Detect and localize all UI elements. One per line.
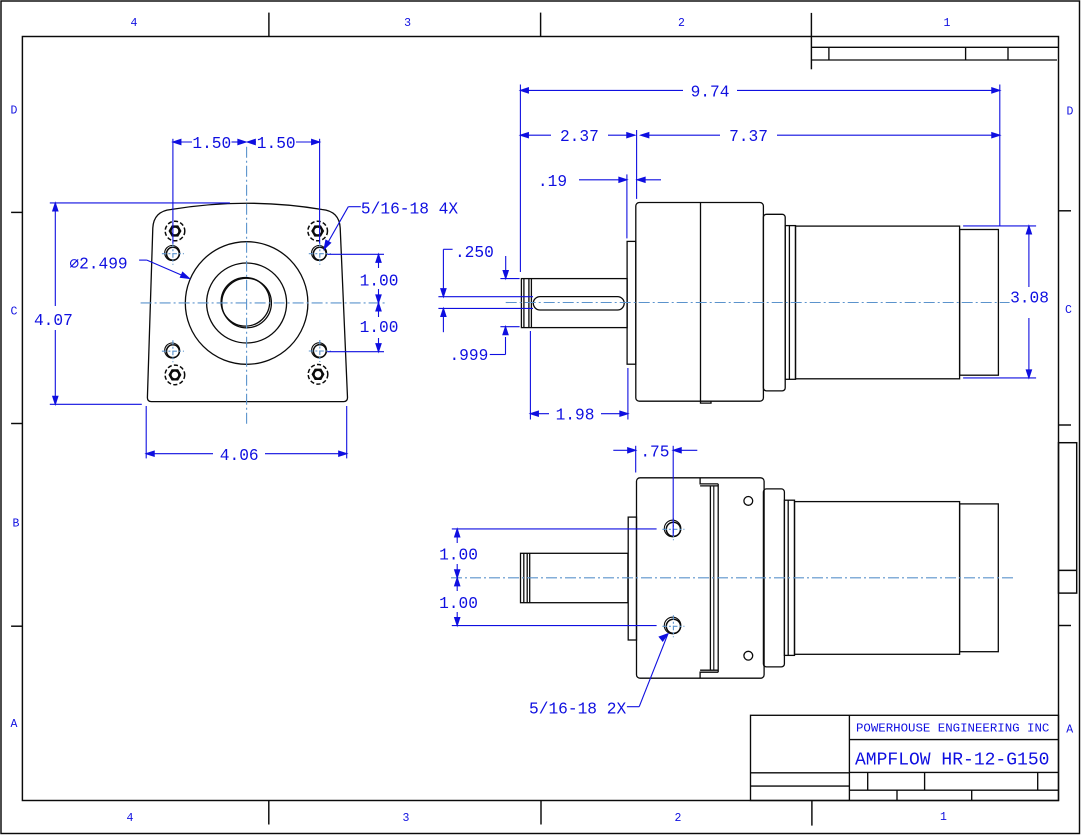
front view: vertical centerline	[246, 147, 248, 424]
svg-text:C: C	[11, 306, 18, 319]
extension lines top view	[519, 85, 521, 273]
dim 1.50 extension lines	[172, 139, 174, 244]
left zone tick B/A	[11, 625, 22, 627]
right zone tick C/B	[1059, 424, 1072, 426]
svg-text:.75: .75	[640, 443, 669, 461]
TITLE BLOCK	[751, 715, 1059, 800]
REVISION TABLE top right	[811, 47, 1058, 60]
front view centerlines	[141, 147, 387, 424]
front view: hub circle	[207, 263, 287, 343]
side view: shaft snap ring lines	[523, 279, 525, 328]
svg-text:1.00: 1.00	[360, 319, 399, 337]
dim 2.37	[520, 134, 551, 136]
left zone tick D/C	[11, 211, 22, 213]
leader dia 2.499	[139, 259, 147, 261]
svg-text:1.00: 1.00	[360, 272, 399, 290]
svg-text:AMPFLOW HR-12-G150: AMPFLOW HR-12-G150	[855, 751, 1049, 771]
svg-text:1: 1	[944, 17, 951, 30]
side view: gearbox body	[636, 203, 764, 402]
bottom view: crosshair lower hole	[662, 625, 684, 627]
dim 7.37	[641, 134, 720, 136]
svg-text:2: 2	[678, 17, 685, 30]
side view: keyway slot	[533, 297, 624, 310]
front view: cap screw top-left	[165, 221, 185, 241]
svg-text:2.37: 2.37	[560, 128, 599, 146]
front view: tapped hole top-left 5/16-18	[165, 246, 180, 261]
dim .19 arrows outside	[579, 179, 619, 181]
bottom view: gearbox body	[637, 478, 765, 678]
front view: bore circle inner thread arc	[221, 278, 270, 327]
bottom view: motor end cap	[960, 504, 999, 652]
bottom view: face plate step bottom	[700, 670, 718, 678]
dim 1.98	[530, 413, 549, 415]
side view: gearbox bottom step	[701, 401, 712, 403]
svg-text:D: D	[11, 105, 18, 118]
bottom view: small hole upper	[744, 497, 753, 506]
svg-text:.999: .999	[449, 347, 488, 365]
dim .75	[613, 449, 627, 451]
front view: crosshair bottom-left hole	[162, 350, 184, 352]
bottom zone tick 2/1	[811, 801, 813, 826]
side view: adapter ring 2	[785, 226, 795, 380]
bottom view: small hole lower	[744, 651, 753, 660]
bottom view: adapter ring 1	[763, 489, 784, 667]
right zone tick D/C	[1059, 210, 1072, 212]
front view: cap screw top-right	[308, 221, 328, 241]
dim 4.07 vertical	[54, 203, 56, 306]
bottom view: crosshair upper hole	[662, 528, 684, 530]
svg-text:.19: .19	[538, 173, 567, 191]
svg-text:4: 4	[131, 17, 138, 30]
front view: tapped hole bottom-right 5/16-18	[312, 343, 327, 358]
front view: horizontal centerline	[141, 302, 387, 304]
svg-text:1.50: 1.50	[257, 135, 296, 153]
svg-text:∅2.499: ∅2.499	[69, 255, 127, 273]
top zone tick 3/2	[540, 13, 542, 37]
svg-text:2: 2	[675, 812, 682, 825]
front view: crosshair top-left hole	[162, 253, 184, 255]
side view: adapter ring 1	[763, 214, 785, 391]
svg-text:.250: .250	[455, 244, 494, 262]
bottom zone tick 4/3	[268, 801, 270, 825]
svg-text:A: A	[1066, 724, 1073, 737]
front view: pilot boss circle dia 2.499	[185, 242, 308, 365]
svg-text:3: 3	[403, 812, 410, 825]
front view: cap screw bottom-right	[308, 365, 328, 385]
svg-text:4.06: 4.06	[220, 447, 259, 465]
top zone tick 4/3	[268, 13, 270, 37]
bottom view: pilot boss	[628, 517, 636, 640]
bottom view: horizontal centerline	[451, 577, 1016, 579]
bottom view: face plate edge	[709, 486, 711, 670]
dim 4.06 bottom	[146, 453, 213, 455]
svg-text:1.00: 1.00	[439, 547, 478, 565]
dim .999 shaft dia	[500, 278, 519, 280]
front view: bore circle outer	[222, 278, 272, 328]
front view: tapped hole bottom-left 5/16-18	[165, 343, 180, 358]
top zone tick 2/1	[810, 13, 812, 69]
dim .250 keyway	[443, 248, 452, 250]
svg-text:3.08: 3.08	[1010, 289, 1049, 307]
svg-text:1.98: 1.98	[556, 407, 595, 425]
svg-text:POWERHOUSE ENGINEERING INC: POWERHOUSE ENGINEERING INC	[856, 722, 1049, 736]
right edge attachment strip	[1059, 443, 1077, 593]
bottom view: motor body	[795, 502, 960, 655]
svg-text:5/16-18 4X: 5/16-18 4X	[361, 201, 458, 219]
bottom view: shaft	[521, 553, 628, 602]
svg-text:1.00: 1.00	[439, 595, 478, 613]
svg-text:4: 4	[127, 812, 134, 825]
side view: horizontal centerline	[506, 302, 1010, 304]
svg-text:B: B	[13, 518, 20, 531]
side view: shaft	[521, 279, 627, 328]
front view: mounting plate outline	[147, 203, 347, 401]
svg-text:A: A	[11, 718, 18, 731]
svg-text:C: C	[1065, 304, 1072, 317]
side view: motor body	[796, 226, 960, 379]
front view: tapped hole top-right 5/16-18	[312, 246, 327, 261]
front view: crosshair bottom-right hole	[309, 350, 331, 352]
dim 1.00 pair bottom view	[452, 528, 657, 530]
bottom view: face plate step top	[700, 478, 718, 486]
leader 5/16-18 4X	[348, 206, 361, 208]
svg-text:3: 3	[404, 17, 411, 30]
side view: pilot boss	[627, 241, 636, 364]
front view dimensions	[50, 139, 384, 459]
bottom view: tapped hole upper 5/16-18	[664, 520, 681, 537]
svg-text:D: D	[1067, 106, 1074, 119]
bottom view: tapped hole lower 5/16-18	[664, 617, 681, 634]
dim 3.08 motor dia	[963, 225, 1036, 227]
svg-text:1.50: 1.50	[192, 135, 231, 153]
svg-text:4.07: 4.07	[34, 312, 73, 330]
svg-text:7.37: 7.37	[729, 128, 768, 146]
svg-text:1: 1	[940, 811, 947, 824]
side view: motor end cap	[960, 230, 999, 376]
dim 9.74	[520, 89, 683, 91]
left zone tick C/B	[11, 423, 22, 425]
side view dimensions	[438, 85, 1036, 420]
svg-text:5/16-18 2X: 5/16-18 2X	[529, 700, 626, 718]
right zone tick B/A	[1059, 625, 1072, 627]
svg-text:9.74: 9.74	[691, 83, 730, 101]
bottom view: adapter ring 2	[784, 500, 794, 655]
dim 1.50 left / 1.50 right line	[173, 141, 192, 143]
dim 1.00 pair right of front view	[327, 253, 384, 255]
bottom zone tick 3/2	[540, 801, 542, 825]
bottom view dimensions	[452, 446, 698, 707]
front view: cap screw bottom-left	[165, 365, 185, 385]
front view: crosshair top-right hole	[309, 253, 331, 255]
leader 5/16-18 2X	[627, 706, 639, 708]
side view: gearbox seam	[700, 203, 702, 402]
